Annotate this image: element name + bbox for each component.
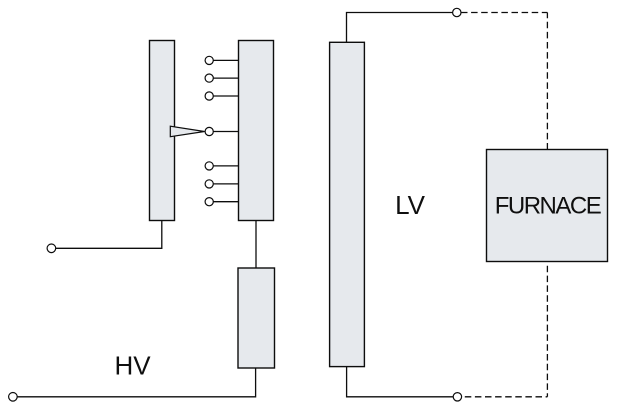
wire dashed bottom terminal to corner <box>462 396 548 398</box>
terminal HV neutral (bottom left) <box>9 393 18 402</box>
wire tap 4 (selected) <box>209 131 238 133</box>
wire LV bottom lead to bottom terminal <box>347 367 453 397</box>
tap point 3 <box>205 92 213 100</box>
wire tap 2 <box>209 77 238 79</box>
terminal LV top <box>453 8 461 16</box>
terminal HV line (left middle) <box>47 244 56 253</box>
wire tap 6 <box>209 183 238 185</box>
wire dashed corner down to furnace top <box>546 13 548 150</box>
wire LV top lead to top terminal <box>347 13 453 43</box>
svg-text:LV: LV <box>395 190 426 220</box>
winding LV (tall rectangle) <box>330 42 365 366</box>
tap point 7 <box>205 198 213 206</box>
tap point 1 <box>205 56 213 64</box>
winding HV main (left rectangle) <box>150 41 175 221</box>
wiper arrow of tap changer <box>170 126 204 137</box>
tap point 5 <box>205 162 213 170</box>
svg-text:HV: HV <box>115 351 152 381</box>
winding series (bottom rectangle) <box>238 268 275 368</box>
furnace box <box>487 150 608 262</box>
winding tap/regulating (second rectangle) <box>239 41 274 221</box>
wire tap 7 <box>209 201 238 203</box>
wire series winding bottom lead <box>17 368 255 397</box>
wire tap winding to series winding <box>255 221 257 268</box>
wire tap 1 <box>209 59 238 61</box>
wire tap 3 <box>209 95 238 97</box>
terminal LV bottom <box>453 393 461 401</box>
wire dashed top terminal to corner <box>461 12 547 14</box>
tap point 2 <box>205 74 213 82</box>
svg-text:FURNACE: FURNACE <box>495 193 601 220</box>
wire dashed furnace bottom down to corner <box>546 266 548 397</box>
tap point 4 (selected) <box>205 127 213 135</box>
wire tap 5 <box>209 165 238 167</box>
wire HV winding bottom lead to left terminal <box>56 221 162 249</box>
tap point 6 <box>205 180 213 188</box>
